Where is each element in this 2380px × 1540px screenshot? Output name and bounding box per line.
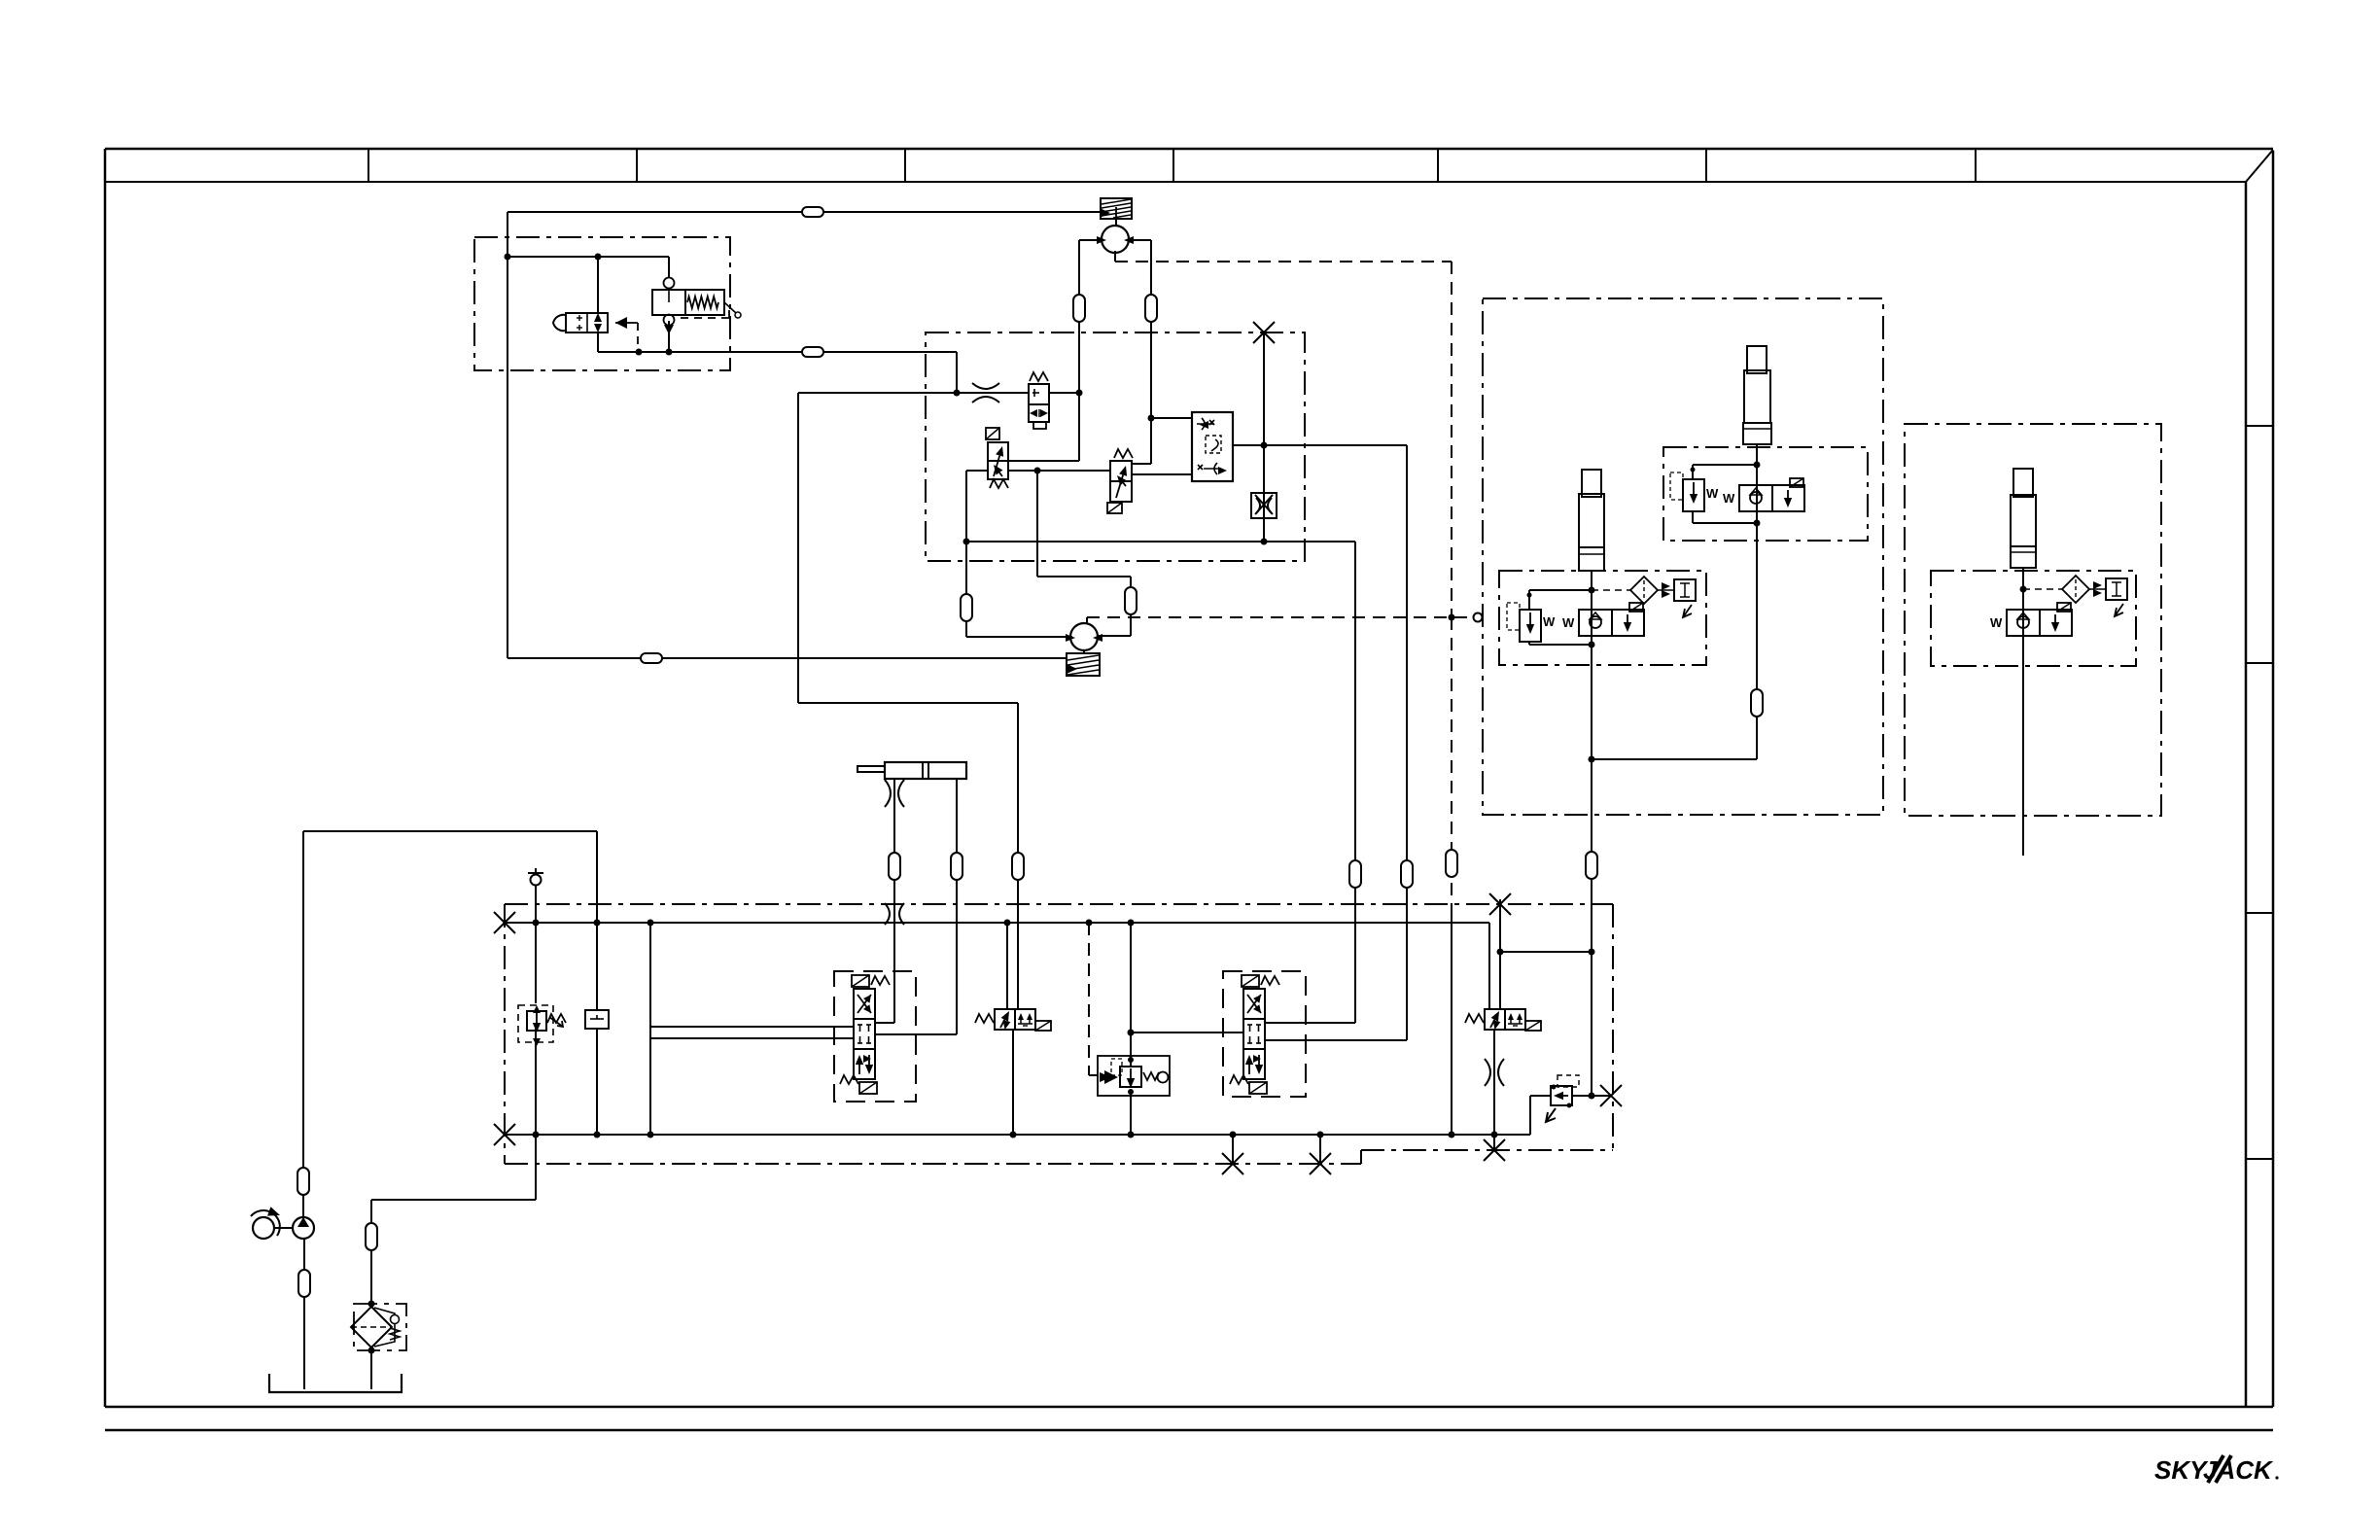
svg-text:SKY: SKY bbox=[2154, 1455, 2209, 1485]
enclosure box E (outrigger cylinder) bbox=[1905, 424, 2161, 816]
svg-text:W: W bbox=[1990, 615, 2003, 630]
hand pump outlet check bbox=[615, 317, 627, 329]
enclosure box D (lift cylinders) bbox=[1483, 298, 1883, 815]
proportional valve DV1 bbox=[852, 975, 869, 987]
pilot relief PRE bbox=[2093, 581, 2102, 597]
wire: steering cyl rod-end line bbox=[956, 779, 958, 1034]
wire: box D supply drop bbox=[1591, 645, 1592, 1096]
wire: jog down to pilot bus bbox=[956, 352, 958, 393]
SKYJACK logo bbox=[2154, 1455, 2279, 1485]
port X RV2 out bbox=[1600, 1085, 1622, 1106]
wire: RV2 right port bbox=[1571, 1095, 1611, 1097]
enclosure box B (drive manifold) bbox=[926, 332, 1305, 561]
wire: case-drain return bbox=[1451, 617, 1452, 904]
counterbalance block CBB bbox=[1192, 412, 1233, 481]
wire: left loop vertical through box A bbox=[507, 212, 508, 658]
wire: SV1 left to motor2 left bbox=[966, 470, 988, 472]
wire: cross link bbox=[1500, 951, 1592, 953]
wire: pump suction bbox=[303, 1239, 305, 1389]
sub-box D2 (cyl 2 valve block) bbox=[1663, 447, 1868, 541]
filter bypass check bbox=[374, 1308, 395, 1347]
sub-box DV2 (prop. valve) bbox=[1223, 971, 1306, 1097]
orifice, SV4 return bbox=[1485, 1059, 1504, 1086]
wire: box A inner top bbox=[507, 256, 669, 258]
relief valve RVA bbox=[664, 278, 675, 289]
steering cylinder CS bbox=[885, 762, 966, 779]
pilot filter PF1 bbox=[1592, 589, 1631, 591]
wire: supply rail drop to SV4 bbox=[1488, 923, 1490, 1009]
svg-text:W: W bbox=[1543, 614, 1556, 629]
wire: DV1 left ports bbox=[649, 923, 651, 1135]
wire: cross bus y=557 bbox=[966, 541, 1355, 542]
return filter F1 bbox=[354, 1304, 406, 1350]
drain: motor2 case drain bbox=[1086, 617, 1088, 624]
wire: FC valve to motor1-left line bbox=[1049, 392, 1079, 394]
wire: pump pressure riser bbox=[596, 831, 598, 1010]
orifice box on CB leg bbox=[1251, 493, 1277, 518]
wire: return rail bbox=[505, 1134, 1530, 1136]
wire: C1 stem bbox=[1591, 571, 1592, 645]
proportional valve DV2 bbox=[1242, 975, 1259, 987]
brake release reducing valve BR bbox=[1098, 1056, 1170, 1096]
sub-box E1 (cyl 3 valve block) bbox=[1931, 571, 2136, 666]
svg-text:W: W bbox=[1562, 615, 1575, 630]
wire: brake1 to motor1 bbox=[1115, 219, 1117, 227]
brake B2 bbox=[1067, 653, 1100, 676]
port X manifold top bbox=[1489, 893, 1511, 915]
pilot: hand pump release bbox=[637, 323, 639, 352]
hand pump HP bbox=[566, 313, 608, 332]
shaft link bbox=[274, 1227, 293, 1229]
wire: C2 stem bbox=[1756, 444, 1758, 523]
wire: DV1 upper-right port bbox=[875, 1022, 894, 1024]
wire: lower loop to drive brake bbox=[507, 657, 1067, 659]
wire: SV2 to CB block lower port bbox=[1132, 473, 1192, 475]
wire: pilot bus y=404 bbox=[798, 392, 1029, 394]
main relief valve RV1 bbox=[518, 1005, 553, 1042]
counterbalance CB1 bbox=[1520, 610, 1541, 642]
wire: SV3 supply stub bbox=[1006, 923, 1008, 1009]
port X supply rail left bbox=[494, 912, 515, 933]
wire: SV1 lower port to SV2 bus bbox=[1007, 470, 1110, 472]
wire: hand pump stem bbox=[597, 257, 599, 314]
gauge test point TP bbox=[585, 1010, 609, 1029]
solenoid valve SV2 bbox=[1114, 449, 1133, 458]
CB2 loop bbox=[1693, 464, 1757, 466]
wire: cyl2 line to junction bbox=[1756, 523, 1758, 759]
wire: tank stub ports bbox=[1232, 1135, 1234, 1164]
counterbalance CB2 bbox=[1683, 479, 1704, 511]
wire: SV3 to return rail bbox=[1012, 1029, 1014, 1135]
check valve CVE bbox=[2007, 610, 2040, 636]
wire: DV1 lower-right port bbox=[875, 1033, 957, 1035]
FC1 drain tank bbox=[1033, 422, 1046, 429]
port X return rail left bbox=[494, 1124, 515, 1145]
wire: BR valve to return rail bbox=[1130, 1090, 1132, 1135]
orifice, manifold entry bbox=[885, 903, 904, 925]
coupler fittings bbox=[802, 207, 823, 217]
sub-box DV1 (prop. valve) bbox=[834, 971, 916, 1102]
relief valve RV2 bbox=[1551, 1086, 1572, 1105]
wire: motor1 right port bbox=[1128, 239, 1151, 241]
pilot relief PR1 bbox=[1662, 582, 1670, 598]
brake B1 bbox=[1101, 198, 1132, 219]
lift cylinder C2 bbox=[1747, 346, 1767, 373]
wire: DV2 left port bbox=[1131, 1032, 1243, 1033]
drain: motor1 case drain bbox=[1114, 251, 1116, 262]
lift cylinder C1 bbox=[1582, 470, 1601, 497]
CB1 loop bbox=[1529, 589, 1592, 591]
breather cap bbox=[531, 875, 542, 886]
wire: box E cylinder line bbox=[2022, 629, 2024, 856]
wire: supply rail down to BR valve bbox=[1130, 923, 1132, 1067]
enclosure box F (main manifold) bbox=[505, 903, 1613, 905]
port X lower right bbox=[1484, 1139, 1505, 1161]
wire: CB out down to DV2 lower bbox=[1406, 445, 1408, 1040]
flow control valve FC1 bbox=[1030, 372, 1048, 381]
wire: motor2 brake stem bbox=[1083, 649, 1085, 653]
check valve CV2 bbox=[1739, 485, 1772, 511]
enclosure box A (emergency hand pump) bbox=[474, 237, 730, 370]
wire: X-port stem through throttle bbox=[1263, 332, 1265, 542]
wire: motor1 left to SV1 bbox=[1007, 460, 1079, 462]
hydraulic motor M2 bbox=[1070, 623, 1098, 650]
pilot filter PFE bbox=[2023, 588, 2063, 590]
wire: supply rail bbox=[505, 922, 1489, 924]
wire: box A bottom output bbox=[598, 351, 957, 353]
wire: motor1 left port bbox=[1079, 239, 1102, 241]
prime mover (engine) bbox=[253, 1217, 274, 1239]
wire: SV4 X-port stem bbox=[1499, 899, 1501, 1009]
pilot: BR valve bbox=[1088, 923, 1090, 1075]
wire: filter to tank bbox=[370, 1350, 372, 1389]
wire: return to filter bbox=[535, 1135, 537, 1200]
wire: motor1 line to SV2 top bbox=[1132, 463, 1151, 465]
wire: return rail to RV2 left port bbox=[1529, 1096, 1531, 1135]
port X box B top bbox=[1253, 322, 1275, 343]
hydraulic motor M1 bbox=[1102, 226, 1129, 253]
wire: bus down to DV2 upper bbox=[1354, 542, 1356, 1023]
wire: steering cyl cap-end line bbox=[893, 779, 895, 1023]
solenoid valve SV4 bbox=[1465, 1014, 1484, 1023]
orifice, cyl cap line bbox=[885, 780, 904, 807]
pilot: box A relief vent bbox=[681, 317, 729, 319]
svg-text:W: W bbox=[1723, 491, 1735, 506]
sheet frame bbox=[105, 148, 2273, 151]
wire: motor2 right port riser bbox=[1099, 635, 1131, 637]
outrigger cylinder C3 bbox=[2013, 469, 2033, 497]
sub-box D1 (cyl 1 valve block) bbox=[1499, 571, 1706, 665]
svg-text:W: W bbox=[1706, 486, 1719, 501]
wire: motor1 right to CB block bbox=[1151, 417, 1192, 419]
solenoid valve SV1 bbox=[986, 428, 999, 439]
solenoid valve SV3 bbox=[975, 1014, 994, 1023]
wire: branch down to SV3 bbox=[797, 393, 799, 703]
wire: relief A stem bbox=[668, 257, 670, 278]
wire: relief RV1 line bbox=[535, 886, 537, 1003]
wire: C3 stem bbox=[2022, 568, 2024, 629]
orifice, pilot bus bbox=[972, 383, 999, 402]
pump P1 bbox=[293, 1217, 314, 1239]
tank bbox=[269, 1374, 402, 1392]
wire: SV4 to return bbox=[1493, 1029, 1495, 1150]
check valve CV1 bbox=[1579, 610, 1612, 636]
wire: top loop feed line bbox=[507, 211, 1101, 213]
wire: CB block output bbox=[1233, 444, 1407, 446]
